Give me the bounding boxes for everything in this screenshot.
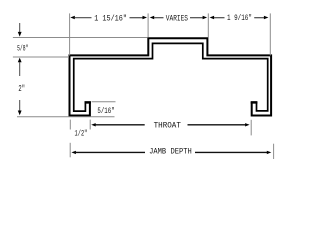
dimension VARIES left shaft xyxy=(154,17,164,19)
dimension VARIES right shaft xyxy=(190,17,203,19)
dimension THROAT left shaft xyxy=(96,124,145,126)
dimension THROAT left arrowhead xyxy=(91,123,96,126)
svg-text:1 15/16": 1 15/16" xyxy=(94,14,127,24)
extension line at left face (top) xyxy=(69,13,71,55)
extension line at stop right (top) xyxy=(207,13,209,37)
dimension 5/8 lower arrowhead (up) xyxy=(18,58,22,63)
dimension 1 15/16 left arrowhead xyxy=(70,16,75,19)
dimension 5/8 upper arrow shaft xyxy=(19,23,21,32)
svg-text:1 9/16": 1 9/16" xyxy=(227,13,252,23)
dimension 1 9/16 right arrowhead xyxy=(264,16,269,19)
extension tick below right lip xyxy=(250,120,252,136)
dimension VARIES right arrowhead xyxy=(203,16,208,19)
dimension THROAT right shaft xyxy=(188,124,246,126)
dimension 1 15/16 left shaft xyxy=(75,17,92,19)
dimension 1 9/16 right shaft xyxy=(254,17,264,19)
dimension 5/8 upper arrowhead (down) xyxy=(18,32,22,37)
svg-text:5/16": 5/16" xyxy=(97,106,114,116)
svg-text:2": 2" xyxy=(18,84,25,94)
dimension JAMB DEPTH right arrowhead xyxy=(267,151,272,154)
jamb profile outer contour xyxy=(70,38,272,115)
left return lip end cap xyxy=(85,101,91,104)
svg-text:1/2": 1/2" xyxy=(75,129,88,139)
svg-text:VARIES: VARIES xyxy=(166,15,188,24)
extension line at stop left (top) xyxy=(147,13,149,37)
svg-text:JAMB DEPTH: JAMB DEPTH xyxy=(149,148,192,157)
dimension 2 lower arrowhead (down) xyxy=(18,111,22,116)
jamb profile inner contour xyxy=(74,43,268,111)
svg-text:5/8": 5/8" xyxy=(17,43,28,53)
dimension VARIES left arrowhead xyxy=(150,16,155,19)
extension tick jamb depth right xyxy=(273,144,275,159)
extension tick below left face xyxy=(69,120,71,130)
dimension 1 9/16 left shaft xyxy=(214,17,225,19)
extension line at right face (top) xyxy=(269,13,271,55)
dimension JAMB DEPTH left shaft xyxy=(76,151,145,153)
dimension JAMB DEPTH right shaft xyxy=(195,151,267,153)
reference line at stop top level xyxy=(13,37,148,39)
dimension 1 15/16 right shaft xyxy=(130,17,144,19)
extension tick jamb depth left xyxy=(69,143,71,158)
reference line at lip top level xyxy=(92,101,116,103)
right return lip end cap xyxy=(251,101,258,104)
reference line at profile bottom xyxy=(17,116,115,118)
dimension THROAT right arrowhead xyxy=(245,123,250,126)
dimension 2 lower arrow shaft xyxy=(19,100,21,111)
extension tick below left lip xyxy=(89,120,91,130)
dimension 5/8 lower arrow shaft xyxy=(19,62,21,76)
dimension 1 9/16 left arrowhead xyxy=(210,16,215,19)
dimension JAMB DEPTH left arrowhead xyxy=(71,151,76,154)
svg-text:THROAT: THROAT xyxy=(154,122,181,131)
reference line at face top level xyxy=(13,56,69,58)
dimension 1 15/16 right arrowhead xyxy=(143,16,148,19)
